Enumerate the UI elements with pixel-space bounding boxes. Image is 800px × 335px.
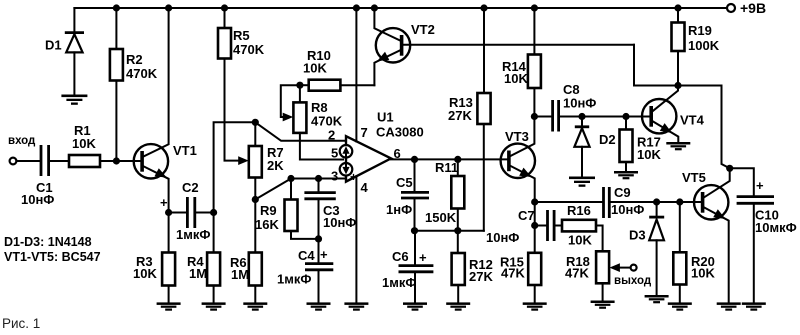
U1 input circle pin3 [340,163,353,176]
wire U1 output row [391,158,509,160]
resistor R16 [562,203,603,251]
svg-text:1M: 1M [231,267,249,282]
node rail-VT1 collector [165,4,172,11]
capacitor C8 [534,82,596,132]
ground of C10 [742,302,766,310]
svg-text:5: 5 [331,146,338,161]
node rail-R19 [674,4,681,11]
node VT3 emitter-C7 row [531,222,538,229]
resistor R20 [673,202,715,302]
node pin3-R9 [287,175,294,182]
output terminal выход [614,265,652,287]
wire bias node row [415,230,484,232]
svg-text:C5: C5 [396,175,413,190]
node rail-VT2 collector [371,4,378,11]
node C9-R20 [676,198,683,205]
svg-text:10K: 10K [303,61,327,76]
node VT3 emitter-C9 row [531,198,538,205]
node VT1 emitter / R3 [165,209,172,216]
wire VT2 base down to VT4 row [634,45,722,86]
svg-text:R11: R11 [435,160,458,175]
svg-text:10нФ: 10нФ [486,230,519,245]
svg-text:VT1: VT1 [173,143,197,158]
svg-text:+: + [419,250,427,265]
wire top +9V rail [74,7,726,9]
svg-text:R19: R19 [688,23,712,38]
ground of R17 [614,171,638,179]
ground of R6 [243,302,267,310]
svg-text:1M: 1M [189,266,207,281]
svg-text:1нФ: 1нФ [386,202,412,217]
svg-text:U1: U1 [377,110,394,125]
wire C9 row [535,201,604,203]
svg-text:7: 7 [361,125,368,140]
svg-text:C4: C4 [298,248,315,263]
input terminal вход [8,135,36,164]
svg-text:10нФ: 10нФ [21,192,54,207]
svg-text:VT1-VT5: BC547: VT1-VT5: BC547 [4,250,101,264]
svg-text:VT3: VT3 [505,129,529,144]
capacitor C5 [386,159,429,230]
wire R1 to VT1 base [100,160,142,162]
+9V terminal [727,0,766,16]
ground of D1 [61,95,87,105]
svg-text:C2: C2 [182,180,199,195]
resistor R11 [425,159,464,230]
node output-C5 [411,156,418,163]
potentiometer R8 [293,85,343,159]
ground of VT4 emitter [666,142,690,150]
svg-text:1мкФ: 1мкФ [382,275,416,290]
resistor R9 [255,179,319,239]
svg-text:4: 4 [361,180,369,195]
resistor R19 [672,8,720,86]
svg-text:27K: 27K [469,269,493,284]
U1 bias input circle pin5 [340,145,353,158]
svg-text:D1: D1 [45,38,62,53]
wire VT5 base [680,201,703,203]
svg-text:D3: D3 [629,228,646,243]
svg-text:10нФ: 10нФ [563,96,596,111]
wire diagonal R7 bottom to U1 pin3 node [255,179,291,200]
wire C8 row to VT4 base [582,116,651,118]
svg-text:+: + [160,195,168,210]
svg-text:1мкФ: 1мкФ [176,227,210,242]
capacitor C6 [382,231,433,303]
svg-text:27K: 27K [448,108,472,123]
ground of R3 [157,302,181,310]
node R7 bottom / R6 [252,196,259,203]
ground of R18 [591,301,615,309]
node R14-C8-VT3 collector [531,113,538,120]
svg-text:10K: 10K [691,266,715,281]
node C8-D2 [578,113,585,120]
svg-text:47K: 47K [501,266,525,281]
node output-R11 [454,156,461,163]
U1 plus sign [350,170,357,184]
wire U1 pin4 to ground [355,176,357,302]
ground of R4 [202,302,226,310]
svg-text:10K: 10K [637,147,661,162]
wiper arrow of R18 [609,263,630,272]
svg-text:10K: 10K [568,233,592,248]
ground of VT5 emitter [717,302,741,310]
capacitor C4 [277,239,333,303]
node C8-R17 [622,113,629,120]
svg-text:CA3080: CA3080 [376,125,424,140]
svg-text:10K: 10K [504,71,528,86]
svg-text:3: 3 [331,169,338,184]
wire R5 to R7 wiper [225,59,240,161]
capacitor C3 [304,179,356,239]
ground of C4 [307,302,331,310]
node pin3-C3 [315,175,322,182]
resistor R17 [620,117,662,172]
resistor R4 [187,213,220,303]
node rail-R13 [480,4,487,11]
svg-text:выход: выход [614,275,652,287]
op-amp U1 [328,110,424,196]
svg-text:R16: R16 [567,203,591,218]
ground of R20 [668,302,692,310]
svg-text:C9: C9 [614,185,631,200]
svg-text:10нФ: 10нФ [323,215,356,230]
svg-text:D1-D3: 1N4148: D1-D3: 1N4148 [4,235,92,249]
diode D3 [629,202,664,295]
resistor R3 [133,213,175,303]
capacitor C9 [604,185,703,218]
capacitor C10 [730,168,797,302]
label set D1-D3 VT1-VT5 [4,235,101,264]
node rail-U1 pin7 [353,4,360,11]
svg-text:Рис. 1: Рис. 1 [2,316,40,331]
wire U1 pin7 to rail [355,8,357,142]
node C9-D3 [653,198,660,205]
ground of D2 [569,177,595,187]
svg-text:2: 2 [328,128,335,143]
node R19-VT4 collector [674,82,681,89]
node bias-R11 [454,227,461,234]
wire U1 pin3 row [291,178,346,180]
svg-text:470K: 470K [233,42,265,57]
svg-text:C7: C7 [518,208,535,223]
wiper loop of R8 [281,85,300,121]
svg-text:150K: 150K [425,210,457,225]
node rail-R14 [531,4,538,11]
wire C2 to R4 node [195,212,214,214]
svg-text:470K: 470K [311,114,343,129]
transistor VT3 [501,117,535,253]
wire R4 node up and over to R7 top [214,122,256,212]
resistor R5 [218,8,265,59]
resistor R1 [69,123,100,167]
ground of U1 pin4 [344,302,368,310]
svg-text:R2: R2 [126,52,143,67]
node rail-R5 [221,4,228,11]
resistor R12 [452,231,494,303]
caption Рис. 1 [2,316,40,331]
ground of R12 [446,302,470,310]
node R8-R10 [296,82,303,89]
svg-text:R5: R5 [233,28,250,43]
resistor R6 [230,200,262,303]
wiper arrow of R7 [238,156,249,165]
svg-text:10нФ: 10нФ [611,202,644,217]
svg-text:10мкФ: 10мкФ [755,220,797,235]
svg-text:вход: вход [8,135,36,147]
svg-text:+: + [320,247,328,262]
wire C1 to R1 [49,160,69,162]
node R7 top [252,119,259,126]
svg-text:VT5: VT5 [682,170,706,185]
transistor VT1 [134,8,197,213]
svg-text:D2: D2 [599,132,616,147]
svg-text:1мкФ: 1мкФ [277,272,311,287]
diode D2 [574,117,615,177]
svg-text:47K: 47K [565,266,589,281]
potentiometer R7 [249,122,284,199]
transistor VT4 [642,86,705,143]
wire diagonal R7 top to U1 pin2 [255,122,346,141]
transistor VT2 [374,8,434,85]
svg-text:100K: 100K [688,38,720,53]
svg-text:2K: 2K [267,158,284,173]
svg-text:+: + [756,178,764,193]
ground of D3 [645,295,669,303]
svg-text:VT4: VT4 [680,113,705,128]
wire VT2 base right [402,44,634,46]
potentiometer R18 [565,251,609,300]
svg-text:+9В: +9В [740,0,766,16]
wire VT1 emitter to C2 [169,212,188,214]
resistor R13 [448,8,491,231]
svg-text:С6: С6 [392,249,409,264]
resistor R14 [502,8,541,117]
svg-text:R9: R9 [260,203,277,218]
svg-text:VT2: VT2 [411,22,435,37]
svg-text:10K: 10K [72,136,96,151]
capacitor C7 [486,208,562,245]
capacitor C1 [21,145,54,207]
node C3-C4 [315,235,322,242]
ground of R15 [523,302,547,310]
node R2-VT1 base [113,157,120,164]
transistor VT5 [682,168,730,302]
wire VT4 row to VT5 collector [722,86,730,169]
resistor R15 [500,253,541,303]
svg-text:16K: 16K [255,217,279,232]
capacitor C2 [160,180,210,242]
svg-text:470K: 470K [126,66,158,81]
diode D1 [45,8,84,95]
svg-text:10K: 10K [133,266,157,281]
wire input to C1 [16,160,41,162]
node VT5 collector-C10 [726,165,733,172]
resistor R10 [300,48,375,91]
node bias-C5 [411,227,418,234]
resistor R2 [110,8,158,161]
node C2-R4 [210,209,217,216]
ground of C6 [403,302,427,310]
node rail-R2 [113,4,120,11]
